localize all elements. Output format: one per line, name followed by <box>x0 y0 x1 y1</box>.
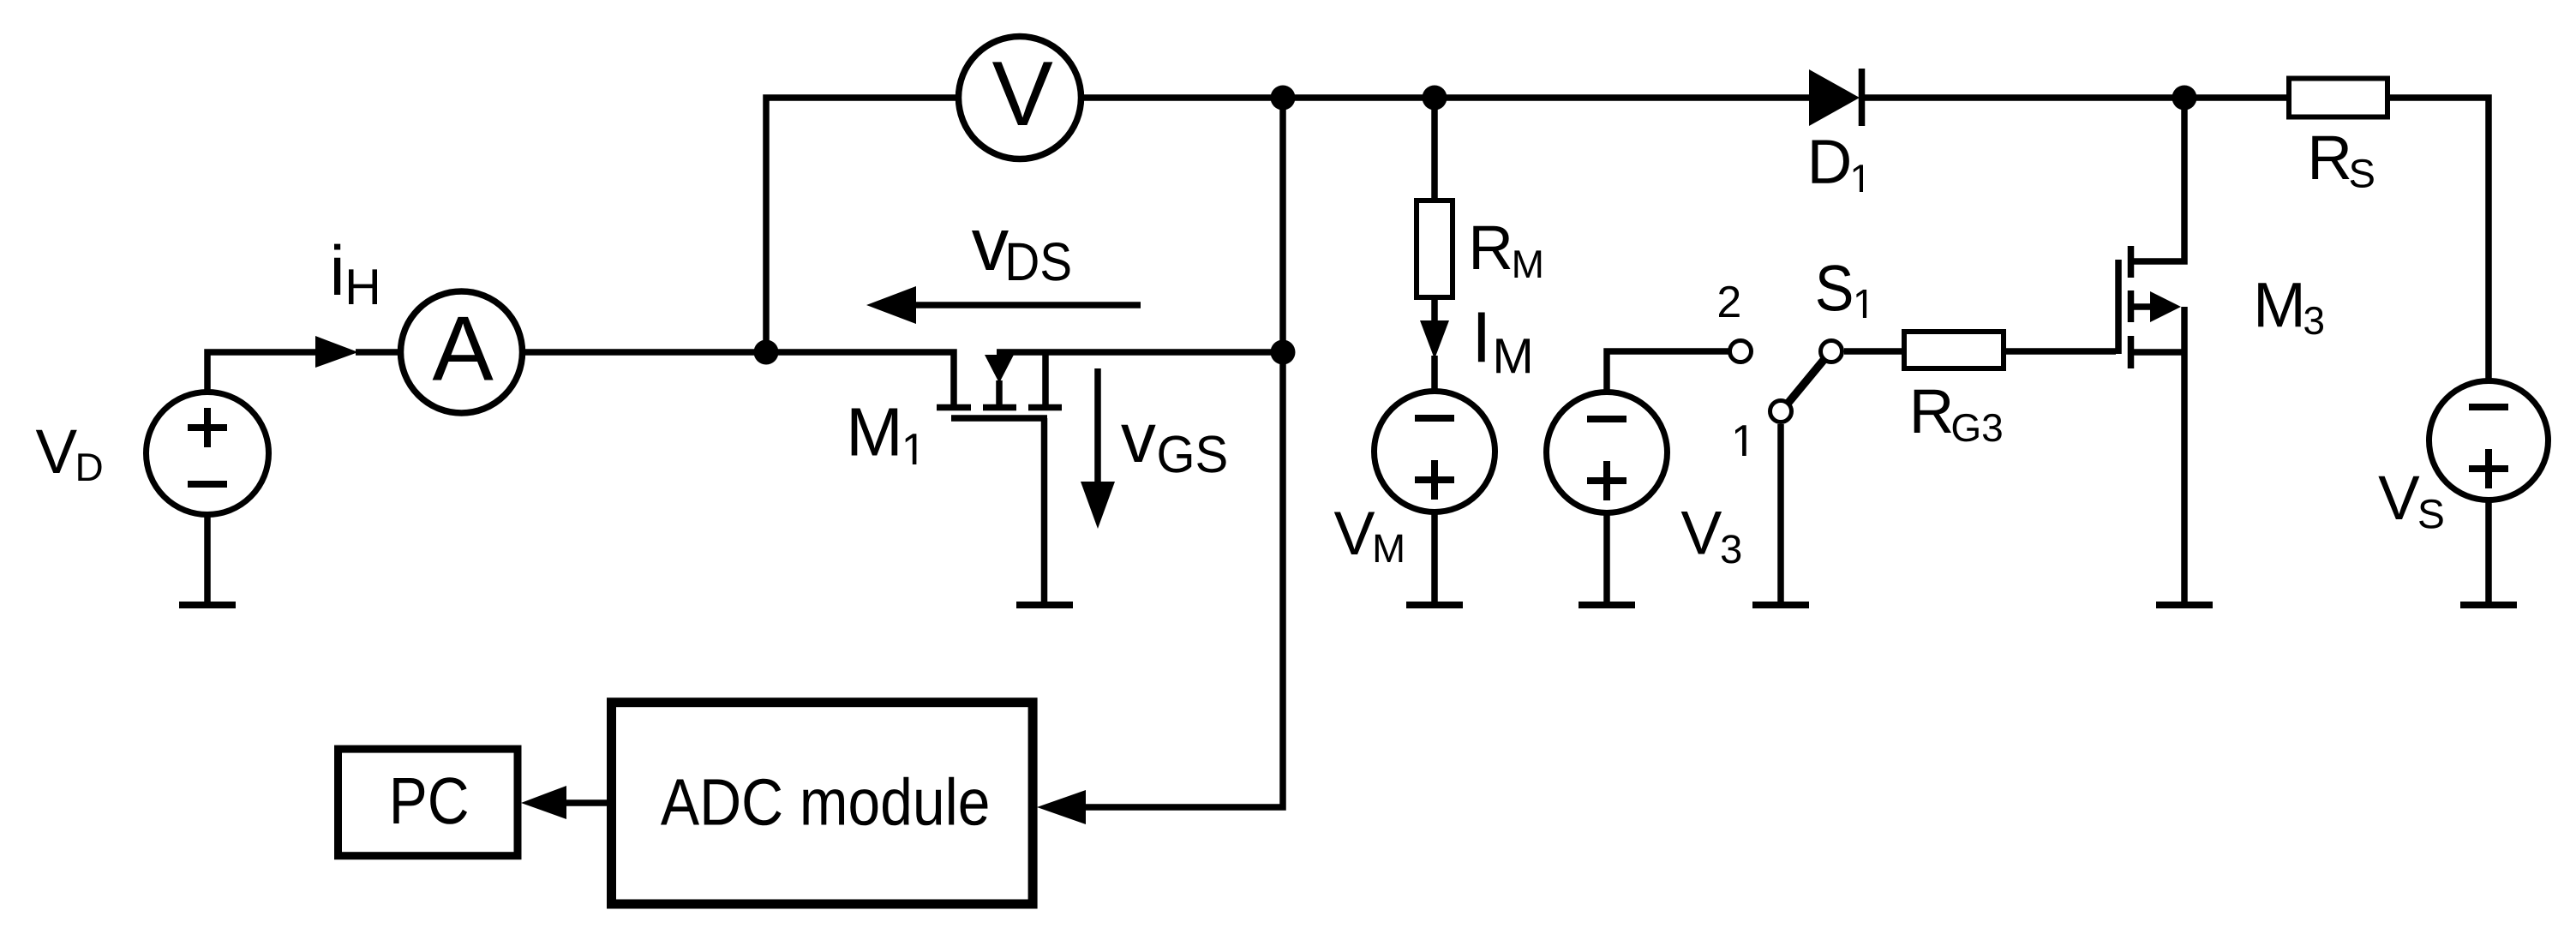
ground at M3 <box>2156 602 2213 608</box>
arrow vGS <box>1081 368 1115 529</box>
label RM <box>1473 226 1541 278</box>
node at VDS loop left <box>754 340 779 365</box>
label A in ammeter <box>433 317 494 380</box>
PC box <box>338 749 518 856</box>
wire ADC tap vertical <box>1086 98 1283 807</box>
label PC <box>393 777 467 824</box>
label D1 <box>1812 141 1863 193</box>
label vGS <box>1121 425 1225 473</box>
ammeter A1 <box>401 291 523 413</box>
label VM <box>1334 512 1403 563</box>
resistor RG3 <box>1904 332 2004 368</box>
node top rail at RM <box>1423 86 1447 111</box>
ADC module box <box>612 703 1033 904</box>
switch S1 pivot <box>1821 341 1842 362</box>
wire RG3 to M3 gate <box>2006 348 2116 355</box>
label terminal 2 <box>1719 286 1740 317</box>
ground at VM <box>1406 602 1463 608</box>
label VD <box>36 430 102 481</box>
label IM <box>1478 313 1530 374</box>
arrow vDS <box>866 286 1141 324</box>
wire arrow to ammeter <box>356 349 399 356</box>
wire VS bottom lead <box>2485 502 2492 602</box>
label RS <box>2312 136 2374 188</box>
label V in voltmeter <box>992 62 1052 125</box>
arrowhead into PC <box>521 786 566 819</box>
voltage source VD <box>147 392 269 515</box>
label vDS <box>972 231 1070 281</box>
node at M1 source rail <box>1271 340 1296 365</box>
label terminal 1 <box>1735 425 1746 456</box>
wire terminal 1 to ground <box>1777 424 1784 602</box>
label S1 <box>1818 265 1866 318</box>
ground at switch <box>1752 602 1809 608</box>
node top rail at ADC tap <box>1271 86 1296 111</box>
wire voltmeter to D1 <box>1084 94 1809 101</box>
label VS <box>2378 476 2442 529</box>
current arrow IM <box>1420 300 1449 391</box>
label RG3 <box>1914 390 2002 442</box>
wire D1 to RS <box>1865 94 2286 101</box>
wire S1 to RG3 <box>1844 348 1902 355</box>
switch terminal 1 <box>1770 401 1792 422</box>
transistor M3 <box>2118 100 2184 368</box>
wire ADC to PC <box>564 799 610 806</box>
label ADC module <box>661 777 987 826</box>
arrowhead into ADC module <box>1037 790 1086 824</box>
node at M3 drain <box>2172 86 2197 111</box>
resistor RM <box>1417 100 1453 297</box>
label M1 <box>852 409 917 465</box>
wire V3 bottom lead <box>1603 514 1610 602</box>
wire M1 gate to ground <box>1041 418 1048 602</box>
wire M3 source to ground <box>2181 307 2188 602</box>
switch terminal 2 <box>1730 341 1752 362</box>
ground at V3 <box>1579 602 1635 608</box>
diode D1 <box>1809 69 1862 126</box>
current arrow iH <box>315 336 358 368</box>
label M3 <box>2258 283 2323 334</box>
wire RS to VS <box>2390 98 2489 379</box>
switch S1 lever <box>1788 359 1824 404</box>
ground at M1 gate <box>1016 602 1073 608</box>
wire voltmeter loop left <box>766 98 957 352</box>
voltage source V3 <box>1547 392 1668 513</box>
wire V3 to terminal 2 <box>1607 351 1728 391</box>
wire M1 source to node <box>997 349 1283 356</box>
wire VD top lead <box>207 352 318 391</box>
wire VD bottom lead <box>204 516 211 602</box>
voltmeter V1 <box>959 37 1081 159</box>
ground at VD <box>179 602 236 608</box>
label iH <box>334 244 377 304</box>
ground at VS <box>2460 602 2517 608</box>
transistor M1 <box>937 352 1062 418</box>
voltage source VS <box>2429 381 2549 500</box>
resistor RS <box>2289 79 2387 117</box>
label V3 <box>1681 512 1741 564</box>
wire VM bottom lead <box>1431 513 1438 602</box>
voltage source VM <box>1375 392 1495 512</box>
wire ammeter to M1 drain <box>525 352 954 406</box>
